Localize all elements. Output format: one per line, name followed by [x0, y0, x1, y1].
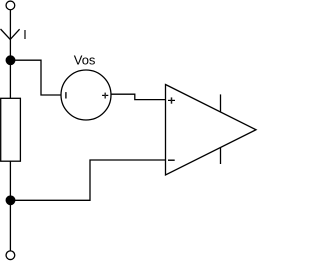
node B	[6, 196, 15, 205]
wire node B to op-amp inverting input	[11, 160, 166, 200]
resistor R	[1, 98, 21, 161]
node A	[6, 56, 15, 65]
Vos minus sign	[65, 92, 67, 98]
svg-text:Vos: Vos	[74, 53, 96, 68]
current arrow I	[1, 29, 20, 39]
wire bottom vertical (resistor to terminal)	[9, 161, 11, 251]
wire Vos plus terminal to op-amp noninverting input	[111, 94, 166, 99]
negative supply pin tick	[220, 148, 222, 164]
op-amp plus input sign	[168, 99, 175, 101]
positive supply pin tick	[220, 94, 222, 111]
wire top vertical (terminal to resistor)	[9, 10, 11, 99]
svg-text:I: I	[23, 28, 26, 42]
op-amp minus input sign	[168, 159, 175, 161]
terminal top	[6, 1, 15, 10]
voltage source Vos	[61, 70, 111, 120]
wire node A to Vos minus terminal	[11, 60, 62, 95]
Vos plus sign	[102, 94, 108, 96]
op-amp triangle	[166, 85, 257, 176]
terminal bottom	[6, 251, 15, 260]
